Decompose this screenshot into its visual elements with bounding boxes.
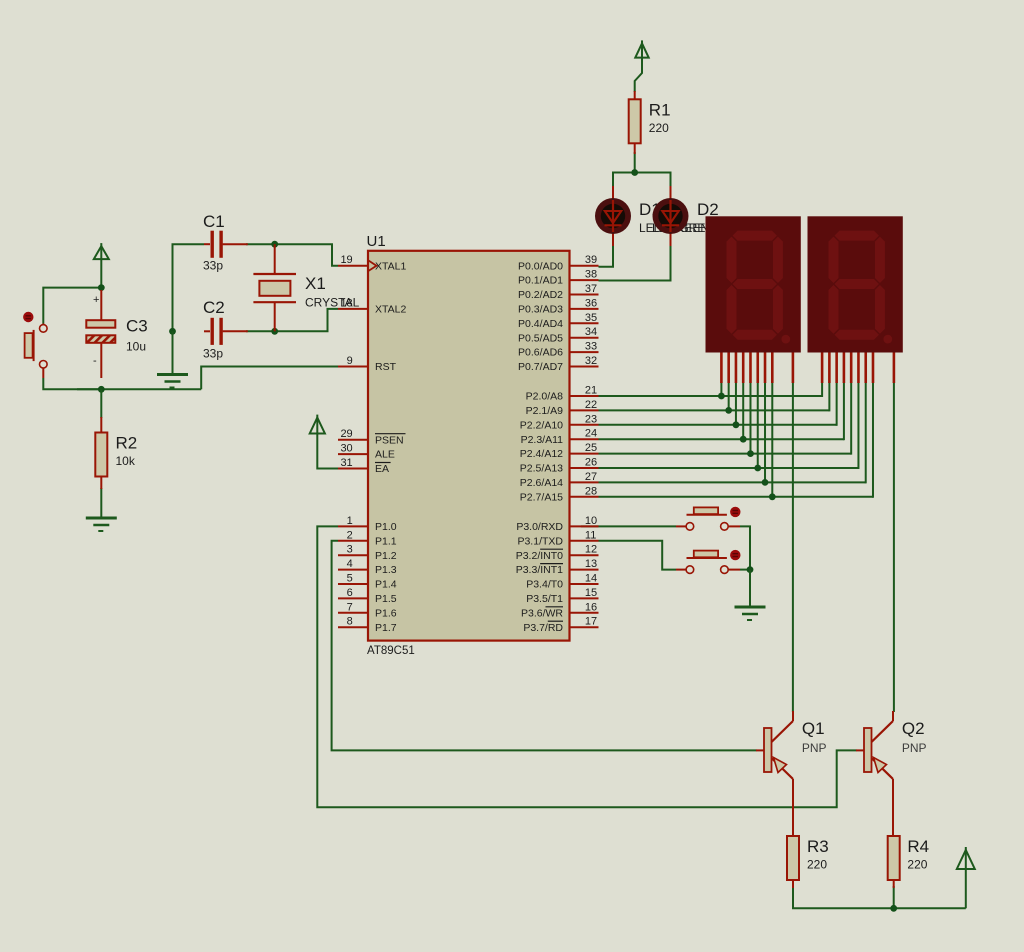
pin 1 P1.0 [338, 515, 397, 533]
svg-text:220: 220 [907, 858, 927, 872]
svg-text:P3.3/INT1: P3.3/INT1 [516, 564, 563, 576]
wire R4 bottom to rail [893, 886, 895, 908]
pin 35 P0.4/AD4 [518, 312, 598, 330]
wire display1 pin 3 vertical [735, 382, 737, 425]
pin 5 P1.4 [338, 573, 397, 591]
pin 4 P1.3 [338, 558, 397, 576]
junction P2.4 / display1 [747, 450, 754, 457]
svg-text:22: 22 [585, 399, 597, 411]
wire D2 cathode to pin 38 [599, 234, 671, 281]
svg-text:R3: R3 [807, 837, 829, 856]
pin 8 P1.7 [338, 616, 397, 634]
svg-text:10u: 10u [126, 340, 146, 354]
svg-text:33: 33 [585, 341, 597, 353]
junction VCC / C3 [98, 284, 105, 291]
svg-text:RST: RST [375, 361, 397, 373]
junction left rail / C2 [169, 328, 176, 335]
svg-text:12: 12 [585, 544, 597, 556]
pin 38 P0.1/AD1 [518, 269, 598, 287]
wire display1 pin 5 vertical [749, 382, 751, 454]
svg-text:+: + [93, 294, 99, 306]
svg-text:P2.5/A13: P2.5/A13 [520, 463, 563, 475]
wire display1 pin 6 vertical [757, 382, 759, 468]
svg-text:P1.6: P1.6 [375, 607, 397, 619]
wire C3 junction to button top [43, 288, 101, 324]
svg-text:220: 220 [649, 121, 669, 135]
pin 12 P3.2/INT0 [516, 544, 599, 562]
pin 37 P0.2/AD2 [518, 283, 598, 301]
svg-text:P0.7/AD7: P0.7/AD7 [518, 361, 563, 373]
LED D1 [595, 186, 661, 246]
svg-text:P1.3: P1.3 [375, 564, 397, 576]
svg-text:Q1: Q1 [802, 719, 825, 738]
svg-text:3: 3 [347, 544, 353, 556]
wire VCC arrow to R1 top [635, 58, 642, 92]
wire ground rail down [749, 570, 751, 606]
7-segment display 2 [808, 216, 903, 383]
svg-text:6: 6 [347, 587, 353, 599]
wire display1 pin 7 vertical [764, 382, 766, 482]
svg-text:36: 36 [585, 297, 597, 309]
svg-text:P0.3/AD3: P0.3/AD3 [518, 304, 563, 316]
wire C3 bottom to RST rail [77, 388, 201, 390]
svg-text:26: 26 [585, 457, 597, 469]
svg-text:P3.0/RXD: P3.0/RXD [516, 521, 563, 533]
svg-text:5: 5 [347, 573, 353, 585]
pin 30 ALE [338, 443, 395, 461]
wire rail to VCC arrow bottom right [965, 868, 967, 908]
svg-text:P2.7/A15: P2.7/A15 [520, 491, 563, 503]
svg-text:P1.1: P1.1 [375, 535, 397, 547]
svg-text:9: 9 [347, 355, 353, 367]
svg-text:37: 37 [585, 283, 597, 295]
wire P2.6 bus row [599, 481, 866, 483]
pin 18 XTAL2 [338, 304, 406, 316]
svg-text:220: 220 [807, 858, 827, 872]
ground buttons [735, 607, 766, 620]
svg-text:P1.7: P1.7 [375, 622, 397, 634]
junction LED rail [631, 169, 638, 176]
svg-text:Q2: Q2 [902, 719, 925, 738]
svg-text:P2.4/A12: P2.4/A12 [520, 448, 563, 460]
pin 34 P0.5/AD5 [518, 326, 598, 344]
svg-text:XTAL2: XTAL2 [375, 304, 406, 316]
transistor Q1 PNP [756, 711, 827, 836]
junction P2.1 / display1 [725, 407, 732, 414]
pin 7 P1.6 [338, 601, 397, 619]
svg-text:P2.6/A14: P2.6/A14 [520, 477, 563, 489]
svg-text:XTAL1: XTAL1 [375, 260, 406, 272]
capacitor C3 10u (polarized) [86, 290, 147, 378]
LED D1 label LED-GREEN [639, 221, 709, 235]
pin 28 P2.7/A15 [520, 485, 599, 503]
XTAL1 clock chevron [369, 261, 377, 271]
svg-text:U1: U1 [367, 233, 386, 250]
svg-text:11: 11 [585, 529, 596, 541]
svg-text:X1: X1 [305, 274, 326, 293]
svg-text:30: 30 [340, 443, 352, 455]
junction P2.2 / display1 [733, 421, 740, 428]
wire display2 common down to Q2 collector [893, 382, 895, 712]
junction C2 / crystal bottom [271, 328, 278, 335]
wire button bottom to bottom rail [43, 378, 101, 389]
wire R2 bottom to ground [100, 488, 102, 517]
transistor Q2 PNP [856, 711, 927, 836]
wire display1 pin 8 vertical [771, 382, 773, 497]
svg-text:24: 24 [585, 428, 597, 440]
wire P2.5 bus row [599, 467, 859, 469]
svg-text:P0.2/AD2: P0.2/AD2 [518, 289, 563, 301]
pin 16 P3.6/WR [521, 601, 599, 619]
svg-text:AT89C51: AT89C51 [367, 645, 415, 657]
pin 33 P0.6/AD6 [518, 341, 598, 359]
wire P1.1 to Q1 base [332, 541, 757, 751]
ground R2 [86, 518, 117, 531]
svg-text:39: 39 [585, 254, 597, 266]
pin 36 P0.3/AD3 [518, 297, 598, 315]
wire P2.4 bus row [599, 453, 852, 455]
svg-text:P1.4: P1.4 [375, 579, 397, 591]
svg-text:14: 14 [585, 573, 597, 585]
pin 24 P2.3/A11 [521, 428, 599, 446]
pin 9 RST [338, 355, 397, 373]
pin 39 P0.0/AD0 [518, 254, 598, 272]
svg-text:8: 8 [347, 616, 353, 628]
pin 23 P2.2/A10 [520, 413, 599, 431]
wire display2 pin 5 vertical [850, 382, 852, 455]
svg-text:2: 2 [347, 529, 353, 541]
wire display1 pin 2 vertical [728, 382, 730, 410]
svg-text:D2: D2 [697, 200, 719, 219]
resistor R2 10k [95, 417, 137, 489]
svg-text:21: 21 [585, 385, 597, 397]
junction P2.7 / display1 [769, 493, 776, 500]
pin 26 P2.5/A13 [520, 457, 599, 475]
wire C1 right to XTAL1 pin 19 [246, 244, 338, 266]
junction buttons ground rail [747, 566, 754, 573]
svg-text:P3.2/INT0: P3.2/INT0 [516, 550, 563, 562]
junction R4 bottom rail [890, 905, 897, 912]
wire pin 10 to button1 left [581, 525, 676, 527]
svg-text:P1.5: P1.5 [375, 593, 397, 605]
svg-text:P1.0: P1.0 [375, 521, 397, 533]
svg-text:P1.2: P1.2 [375, 550, 397, 562]
wire C3 junction down to R2 [100, 389, 102, 418]
svg-text:32: 32 [585, 355, 597, 367]
wire EA power arrow [317, 434, 338, 469]
pin 25 P2.4/A12 [520, 442, 599, 460]
wire D1 cathode to pin 39 [599, 234, 614, 267]
svg-text:P3.7/RD: P3.7/RD [523, 622, 563, 634]
capacitor C2 33p [203, 298, 248, 361]
wire C1 left to left rail [173, 244, 205, 331]
resistor R3 220 [787, 836, 829, 888]
push button 2 (P3.1) [676, 550, 741, 574]
junction P2.5 / display1 [754, 465, 761, 472]
wire display2 pin 1 vertical [821, 382, 823, 397]
svg-text:P3.5/T1: P3.5/T1 [526, 593, 563, 605]
svg-text:P0.4/AD4: P0.4/AD4 [518, 318, 563, 330]
svg-text:38: 38 [585, 269, 597, 281]
pin 22 P2.1/A9 [526, 399, 599, 417]
pin 14 P3.4/T0 [526, 573, 598, 591]
wire display1 common down to Q1 collector [792, 382, 794, 712]
svg-text:R4: R4 [907, 837, 929, 856]
chip U1 AT89C51 body [367, 233, 570, 657]
svg-text:P0.5/AD5: P0.5/AD5 [518, 332, 563, 344]
svg-text:P2.2/A10: P2.2/A10 [520, 419, 563, 431]
wire P2.1 bus row [599, 409, 830, 411]
pin 11 P3.1/TXD [517, 529, 598, 547]
wire P2.2 bus row [599, 424, 837, 426]
svg-text:18: 18 [340, 297, 352, 309]
svg-text:PNP: PNP [902, 741, 927, 755]
power terminal VCC bottom right [957, 847, 975, 869]
svg-text:C1: C1 [203, 212, 225, 231]
wire display1 pin 1 vertical [720, 382, 722, 396]
junction P2.6 / display1 [762, 479, 769, 486]
svg-text:17: 17 [585, 616, 597, 628]
wire button1 right to ground rail [740, 526, 750, 569]
junction P2.0 / display1 [718, 393, 725, 400]
wire display2 pin 7 vertical [865, 382, 867, 483]
wire display2 pin 4 vertical [843, 382, 845, 440]
wire display2 pin 3 vertical [836, 382, 838, 426]
svg-text:1: 1 [347, 515, 353, 527]
power terminal VCC top (above R1) [635, 40, 648, 57]
LED D2 label LED-GREEN (overlapped) [652, 221, 722, 235]
svg-text:33p: 33p [203, 347, 223, 361]
pin 31 EA [338, 457, 391, 475]
svg-text:4: 4 [347, 558, 353, 570]
push button left (reset) [23, 312, 47, 378]
pin 6 P1.5 [338, 587, 397, 605]
svg-text:C2: C2 [203, 298, 225, 317]
wire P2.7 bus row [599, 496, 873, 498]
svg-text:P3.4/T0: P3.4/T0 [526, 579, 563, 591]
svg-text:7: 7 [347, 601, 353, 613]
pin 10 P3.0/RXD [516, 515, 598, 533]
resistor R4 220 [888, 836, 929, 888]
svg-text:31: 31 [340, 457, 352, 469]
LED D2 [653, 186, 719, 246]
crystal X1 [253, 244, 359, 331]
svg-text:10k: 10k [116, 454, 136, 468]
wire display1 pin 4 vertical [742, 382, 744, 439]
wire VCC arrow to C3 junction [100, 260, 102, 290]
svg-text:PNP: PNP [802, 741, 827, 755]
svg-text:25: 25 [585, 442, 597, 454]
pin 17 P3.7/RD [523, 616, 598, 634]
pin 3 P1.2 [338, 544, 397, 562]
ground crystal rail [157, 375, 188, 388]
svg-text:28: 28 [585, 485, 597, 497]
wire display2 pin 6 vertical [857, 382, 859, 469]
junction C1 / crystal top [271, 241, 278, 248]
svg-text:P3.6/WR: P3.6/WR [521, 607, 563, 619]
junction P2.3 / display1 [740, 436, 747, 443]
pin 15 P3.5/T1 [526, 587, 598, 605]
svg-text:-: - [93, 355, 97, 367]
svg-text:19: 19 [340, 254, 352, 266]
wire R3 bottom to rail [793, 886, 966, 908]
svg-text:PSEN: PSEN [375, 434, 404, 446]
svg-text:34: 34 [585, 326, 597, 338]
pin number 18 overlapping CRYSTAL [340, 297, 352, 309]
wire button2 right to ground rail [740, 569, 750, 571]
wire display2 pin 8 vertical [872, 382, 874, 498]
pin 29 PSEN [338, 428, 406, 446]
svg-text:P2.0/A8: P2.0/A8 [526, 391, 564, 403]
pin 21 P2.0/A8 [526, 385, 599, 403]
svg-text:33p: 33p [203, 259, 223, 273]
push button 1 (P3.0) [676, 507, 741, 531]
svg-text:ALE: ALE [375, 449, 395, 461]
resistor R1 220 [629, 91, 671, 154]
power terminal VCC left (above C3) [94, 243, 109, 259]
wire R1 bottom to LED junction [634, 152, 636, 173]
wire pin 11 to button2 left [599, 541, 677, 570]
svg-text:P0.1/AD1: P0.1/AD1 [518, 275, 563, 287]
svg-text:P0.6/AD6: P0.6/AD6 [518, 347, 563, 359]
wire left rail to ground [172, 331, 174, 373]
pin 13 P3.3/INT1 [516, 558, 599, 576]
svg-text:13: 13 [585, 558, 597, 570]
svg-text:27: 27 [585, 471, 597, 483]
pin 32 P0.7/AD7 [518, 355, 598, 373]
wire LED top rail [613, 173, 671, 200]
svg-text:R1: R1 [649, 100, 671, 119]
capacitor C1 33p [203, 212, 248, 273]
svg-text:P2.3/A11: P2.3/A11 [521, 434, 564, 446]
svg-text:23: 23 [585, 413, 597, 425]
junction C3 bottom rail [98, 386, 105, 393]
svg-text:P2.1/A9: P2.1/A9 [526, 405, 564, 417]
svg-text:P0.0/AD0: P0.0/AD0 [518, 260, 563, 272]
svg-text:P3.1/TXD: P3.1/TXD [517, 535, 563, 547]
wire display2 pin 2 vertical [828, 382, 830, 411]
svg-text:C3: C3 [126, 317, 148, 336]
svg-text:10: 10 [585, 515, 597, 527]
wire P1.0 to Q2 base [317, 526, 856, 807]
svg-text:35: 35 [585, 312, 597, 324]
wire P2.3 bus row [599, 438, 844, 440]
wire P2.0 bus row [599, 395, 823, 397]
wire RST rail up to pin 9 [201, 367, 338, 390]
svg-text:EA: EA [375, 463, 389, 475]
svg-text:29: 29 [340, 428, 352, 440]
svg-text:16: 16 [585, 601, 597, 613]
pin 27 P2.6/A14 [520, 471, 599, 489]
wire C2 row to XTAL2 pin 18 [246, 309, 338, 331]
pin 2 P1.1 [338, 529, 397, 547]
7-segment display 1 [706, 216, 801, 383]
power terminal VCC at EA [310, 415, 325, 434]
pin 19 XTAL1 [338, 254, 406, 272]
svg-text:15: 15 [585, 587, 597, 599]
svg-text:R2: R2 [116, 434, 138, 453]
